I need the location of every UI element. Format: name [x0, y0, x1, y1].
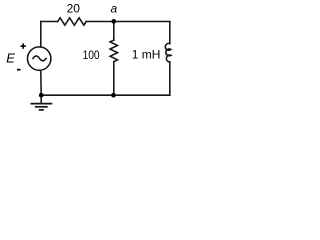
wire middle branch upper (node a to resistor 100): [113, 22, 115, 41]
wire middle branch lower: [113, 62, 115, 95]
bottom-left junction dot: [39, 93, 44, 98]
wire right branch upper (to inductor): [169, 22, 171, 44]
wire right branch lower: [169, 62, 171, 95]
source sine wave: [33, 56, 46, 61]
inductor L 1 mH (3 left-bulging loops): [165, 43, 171, 61]
ground: [31, 104, 53, 110]
AC voltage source E (circle): [28, 47, 51, 70]
svg-text:1 mH: 1 mH: [132, 47, 161, 61]
wire top-left vertical (source to top rail): [40, 22, 42, 47]
resistor 100 (vertical zigzag): [110, 40, 117, 62]
wire source bottom to ground junction: [40, 70, 42, 95]
svg-text:E: E: [6, 51, 15, 66]
bottom-middle junction dot: [111, 93, 116, 98]
ground stem: [40, 95, 42, 103]
wire top rail right segment: [114, 21, 170, 23]
node a junction dot: [111, 19, 116, 24]
source polarity minus sign: [17, 69, 21, 71]
svg-text:a: a: [111, 1, 118, 15]
resistor 20 (horizontal zigzag): [58, 18, 87, 25]
wire bottom rail: [41, 94, 170, 96]
wire top rail left segment: [41, 21, 58, 23]
svg-text:100: 100: [83, 48, 100, 62]
svg-text:20: 20: [67, 2, 81, 16]
wire top rail middle segment: [86, 21, 114, 23]
source polarity plus sign: [21, 43, 26, 48]
